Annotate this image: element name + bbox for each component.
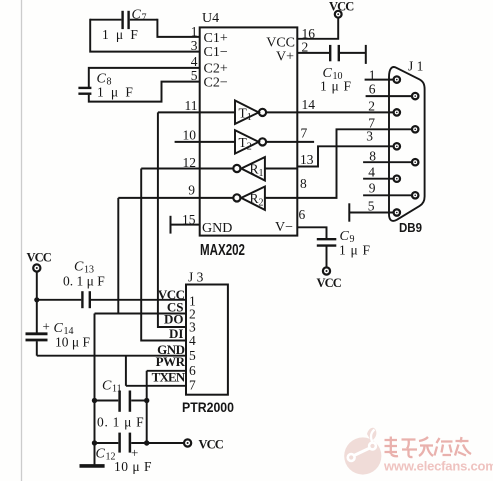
svg-text:8: 8 — [369, 149, 376, 164]
wire pin 10 stub to T2 input — [175, 141, 235, 143]
wire R2 output to pin 9 rail — [118, 197, 233, 199]
IC U4 MAX202 box — [200, 27, 298, 235]
capacitor C12 — [95, 433, 184, 453]
ground rail from CS — [94, 314, 96, 465]
wire TXEN row — [126, 385, 186, 387]
svg-text:8: 8 — [300, 176, 307, 191]
wire DB9 pin 5 with terminal bar — [349, 203, 397, 221]
wire R1 output to pin 12 rail — [141, 168, 233, 170]
svg-text:11: 11 — [185, 98, 198, 113]
DB9 connector shell — [389, 67, 425, 221]
VCC terminal left — [33, 264, 40, 271]
capacitor C9 — [317, 239, 337, 245]
VCC terminal below C9 — [323, 267, 330, 274]
DB9 pin 7 contact — [412, 126, 418, 132]
svg-text:7: 7 — [301, 126, 308, 141]
svg-text:C1+: C1+ — [204, 31, 228, 46]
svg-text:+: + — [43, 319, 50, 334]
rail pin 11 down to DO — [158, 112, 186, 327]
svg-text:5: 5 — [368, 199, 375, 214]
svg-text:3: 3 — [366, 129, 373, 144]
wire C9 to VCC terminal — [326, 246, 328, 268]
svg-text:MAX202: MAX202 — [200, 242, 245, 259]
DB9 pin 4 contact — [394, 176, 400, 182]
DB9 pin 3 contact — [394, 143, 400, 149]
svg-text:1 μ F: 1 μ F — [102, 27, 140, 42]
svg-text:C1−: C1− — [204, 45, 228, 60]
buffer T2 — [235, 130, 266, 153]
DB9 pin 5 contact — [394, 209, 400, 215]
DB9 pin 1 contact — [394, 76, 400, 82]
capacitor C11 — [95, 391, 147, 412]
svg-text:C: C — [102, 379, 112, 394]
rail PWR TXEN down to C11 C12 — [146, 371, 148, 443]
rail pin 12 down to DI — [141, 169, 186, 341]
svg-text:R1: R1 — [250, 162, 264, 180]
wire DB9 pin 6 stub — [366, 95, 416, 97]
wire T2 output to pin 7 — [266, 141, 297, 143]
svg-text:VCC: VCC — [199, 438, 224, 452]
connector J3 box — [186, 285, 228, 395]
svg-text:VCC: VCC — [317, 276, 342, 290]
rail pin 9 down to CS — [117, 198, 119, 314]
svg-text:9: 9 — [369, 181, 376, 196]
svg-text:PTR2000: PTR2000 — [182, 399, 234, 415]
wire C13 to J3 VCC — [91, 299, 186, 301]
wire pin 15 — [171, 224, 200, 226]
wire U4 pin 8 to DB9 pin 7 — [297, 129, 415, 198]
svg-text:6: 6 — [369, 82, 376, 97]
svg-text:2: 2 — [368, 99, 375, 114]
svg-text:V+: V+ — [276, 50, 294, 65]
svg-text:VCC: VCC — [329, 0, 354, 14]
wire GND row to J3 pin 5 — [37, 355, 186, 357]
VCC terminal bottom — [184, 439, 191, 446]
wire C7 left loop to pin 3 — [90, 19, 200, 52]
DB9 pin 6 contact — [412, 93, 418, 99]
wire pin 13 to R1 input — [265, 168, 297, 170]
junction VCC C13 — [34, 297, 39, 302]
svg-text:C: C — [132, 8, 142, 23]
wire DB9 pin 1 stub — [365, 79, 397, 81]
wire U4 pin 6 to C9 — [297, 227, 326, 238]
C11 junction right — [144, 398, 149, 403]
wire junction to C13 — [37, 299, 82, 301]
svg-text:6: 6 — [189, 363, 196, 378]
svg-text:1: 1 — [369, 68, 376, 83]
svg-text:11: 11 — [112, 384, 122, 395]
wire CS row — [95, 313, 187, 315]
capacitor C10 — [330, 45, 339, 61]
capacitor C14 — [26, 334, 48, 340]
svg-text:J 1: J 1 — [408, 59, 423, 74]
svg-text:DO: DO — [164, 312, 184, 327]
DB9 pin 9 contact — [412, 192, 418, 198]
DB9 pin 8 contact — [412, 159, 418, 165]
wire PWR row — [147, 370, 186, 372]
svg-text:DB9: DB9 — [399, 221, 422, 235]
svg-text:1 μ F: 1 μ F — [339, 243, 371, 258]
wire pin 8 to R2 input — [265, 197, 297, 199]
wire U4 pin 14 to DB9 pin 2 — [297, 111, 397, 113]
wire C7 right to pin 1 — [157, 19, 199, 37]
svg-text:C: C — [74, 260, 84, 275]
svg-text:C: C — [96, 447, 106, 462]
DB9 pin 2 contact — [394, 109, 400, 115]
buffer T1 — [235, 101, 266, 124]
svg-text:J 3: J 3 — [188, 270, 204, 285]
capacitor C13 — [82, 291, 89, 308]
wire C14 to GND rail — [36, 341, 38, 356]
svg-text:GND: GND — [202, 221, 232, 236]
svg-text:9: 9 — [188, 183, 195, 198]
svg-text:VCC: VCC — [266, 36, 295, 51]
capacitor C8 — [78, 88, 91, 94]
svg-text:5: 5 — [189, 348, 196, 363]
svg-text:C2+: C2+ — [204, 62, 228, 77]
wire T1 output to pin 14 — [266, 111, 297, 113]
wire pin 2 to C10 — [297, 52, 329, 54]
svg-text:PWR: PWR — [156, 354, 186, 369]
svg-text:R2: R2 — [250, 191, 264, 209]
wire U4 pin 13 to DB9 pin 3 — [297, 146, 397, 166]
wire C8 bottom loop to pin 5 — [89, 82, 200, 102]
wire DB9 pin 9 stub — [363, 194, 415, 196]
svg-text:0. 1 μ F: 0. 1 μ F — [97, 415, 144, 430]
wire C10 right with terminal bar — [340, 45, 366, 64]
svg-text:www.elecfans.com: www.elecfans.com — [383, 459, 493, 474]
buffer R1 — [233, 157, 265, 180]
buffer R2 — [233, 187, 265, 210]
svg-text:10 μ F: 10 μ F — [114, 459, 152, 474]
wire VCC down to C14 — [36, 272, 38, 333]
wire pin 4 to C8 top — [89, 68, 200, 87]
wire DB9 pin 8 stub — [363, 161, 415, 163]
svg-text:U4: U4 — [202, 11, 219, 26]
svg-text:VCC: VCC — [27, 251, 52, 265]
watermark hanzi text — [385, 437, 472, 458]
wire DB9 pin 4 stub — [363, 178, 397, 180]
C12 junction left — [92, 440, 97, 445]
watermark logo disk — [344, 428, 381, 475]
svg-text:0. 1 μ F: 0. 1 μ F — [63, 274, 105, 289]
svg-text:10: 10 — [183, 128, 197, 143]
svg-text:V−: V− — [275, 220, 293, 235]
svg-text:C2−: C2− — [204, 76, 228, 91]
svg-text:+: + — [131, 445, 138, 460]
link GND to TXEN — [125, 356, 127, 386]
svg-text:10 μ F: 10 μ F — [55, 335, 90, 350]
capacitor C7 — [90, 11, 157, 29]
wire pin 11 to T1 input — [158, 111, 235, 113]
svg-text:6: 6 — [299, 207, 306, 222]
svg-text:4: 4 — [191, 54, 198, 69]
C11 junction left — [92, 398, 97, 403]
svg-text:1 μ F: 1 μ F — [320, 79, 352, 94]
svg-text:TXEN: TXEN — [152, 370, 186, 385]
ground symbol — [80, 464, 105, 468]
svg-text:1 μ F: 1 μ F — [97, 85, 135, 100]
svg-text:7: 7 — [142, 13, 147, 24]
C12 junction right — [144, 440, 149, 445]
svg-text:4: 4 — [189, 333, 196, 348]
svg-text:13: 13 — [300, 152, 314, 167]
svg-text:DI: DI — [169, 326, 183, 341]
svg-text:7: 7 — [189, 378, 196, 393]
wire pin 7 stub — [297, 141, 314, 143]
svg-text:4: 4 — [368, 165, 375, 180]
pin 15 terminal bar — [170, 216, 172, 234]
wire VCC to pin 16 — [297, 18, 338, 39]
page margin line — [21, 0, 23, 481]
svg-text:14: 14 — [302, 97, 316, 112]
VCC terminal top right — [335, 11, 342, 18]
